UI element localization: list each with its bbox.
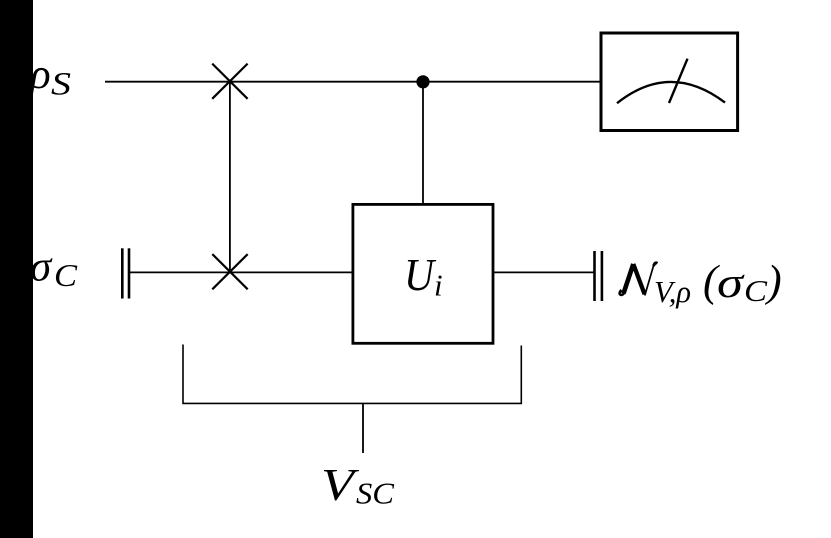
label rho_S (system input state) — [28, 51, 71, 103]
swap gate lower cross — [212, 254, 247, 289]
swap gate vertical connector — [229, 82, 231, 272]
svg-text:): ) — [764, 257, 782, 306]
meter needle — [669, 59, 688, 103]
gate Ui box — [353, 204, 493, 343]
svg-text:SC: SC — [356, 476, 394, 511]
label sigma_C (control input state) — [30, 244, 78, 294]
svg-text:σ: σ — [30, 244, 53, 291]
control dot on top wire — [416, 75, 429, 88]
swap gate upper cross — [212, 64, 247, 99]
control vertical wire to gate Ui — [422, 82, 424, 206]
measurement meter box — [601, 33, 738, 131]
bracket stem — [362, 403, 364, 453]
label N_V,rho(sigma_C) channel output — [620, 257, 782, 310]
bracket VSC (square brace under swap and Ui) — [183, 345, 521, 404]
left black sidebar — [0, 0, 33, 538]
meter arc — [617, 82, 725, 103]
svg-text:V,ρ: V,ρ — [654, 274, 691, 309]
svg-text:ρ: ρ — [28, 51, 51, 98]
svg-text:C: C — [744, 273, 767, 308]
svg-text:V: V — [321, 459, 360, 510]
svg-text:U: U — [404, 250, 436, 300]
svg-text:S: S — [51, 67, 71, 103]
label Ui — [404, 250, 443, 303]
wire bottom right segment — [493, 271, 595, 273]
svg-text:i: i — [434, 268, 443, 303]
label VSC — [321, 459, 394, 511]
wire bottom left segment — [130, 271, 353, 273]
wire top (rho_S line) — [105, 81, 601, 83]
double-bar terminator right (channel output) — [595, 251, 602, 301]
svg-text:σ: σ — [717, 260, 745, 307]
double-bar terminator left (sigma_C input) — [122, 248, 129, 298]
svg-text:C: C — [54, 257, 78, 293]
